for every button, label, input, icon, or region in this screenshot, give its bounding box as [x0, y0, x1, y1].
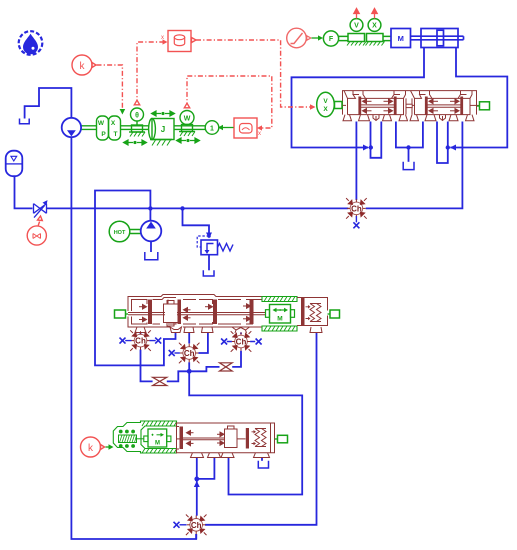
- svg-text:θ: θ: [135, 113, 139, 120]
- svg-text:F: F: [329, 36, 334, 43]
- svg-text:V: V: [323, 98, 328, 105]
- svg-text:M: M: [155, 441, 160, 447]
- svg-text:HOT: HOT: [114, 230, 126, 236]
- svg-text:V: V: [354, 23, 359, 30]
- svg-text:W: W: [184, 116, 191, 123]
- svg-text:x: x: [258, 131, 261, 137]
- svg-text:X: X: [111, 120, 116, 127]
- svg-text:k: k: [88, 443, 94, 454]
- svg-text:x: x: [161, 35, 164, 41]
- svg-text:1: 1: [210, 126, 214, 133]
- svg-text:T: T: [114, 131, 118, 138]
- svg-text:k: k: [80, 61, 86, 72]
- svg-text:P: P: [101, 131, 106, 138]
- svg-text:X: X: [323, 106, 328, 113]
- svg-text:W: W: [98, 120, 105, 127]
- svg-text:X: X: [372, 23, 377, 30]
- svg-text:M: M: [398, 34, 404, 43]
- svg-text:J: J: [161, 125, 165, 134]
- svg-text:M: M: [277, 316, 282, 323]
